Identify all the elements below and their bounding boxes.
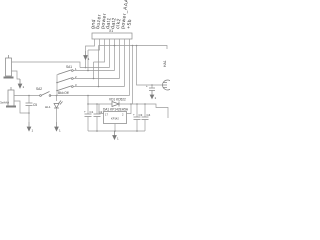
wire buzzer drop: [137, 46, 163, 86]
switch S1.3: [58, 86, 72, 91]
wire jack2 tip to bus: [14, 95, 40, 97]
node dot buzzer branch: [151, 84, 153, 86]
pin label +5v: [126, 19, 133, 30]
jack XS1: [4, 55, 14, 78]
svg-text:17: 17: [105, 113, 108, 117]
diode VD1: [112, 102, 119, 107]
svg-text:+: +: [84, 110, 86, 114]
wire jack1 tip to pin3: [12, 62, 81, 68]
bottom bus: [88, 130, 145, 132]
svg-text:SA1: SA1: [66, 65, 72, 69]
jack XS2: [6, 87, 16, 107]
pin 2 stub: [88, 39, 100, 50]
node dot C cap: [28, 95, 30, 97]
buzer line y45.5: [99, 46, 168, 50]
bus label: [58, 91, 69, 95]
pin 1 stub: [86, 39, 95, 51]
cap C4: [144, 104, 146, 117]
svg-text:1: 1: [155, 96, 157, 100]
ground arrow LED: [55, 122, 59, 131]
switch SA2 on bus: [50, 95, 57, 97]
svg-text:2: 2: [122, 113, 124, 117]
jack XS2 label: [0, 101, 9, 105]
ground arrow top (gnd pin): [84, 51, 88, 60]
connector X1 label: [109, 29, 113, 33]
wire y67.5 line: [80, 67, 110, 69]
ground arrow buzzer cap: [150, 91, 154, 99]
capacitor C6 column: [28, 96, 30, 104]
switch group label SA1: [66, 65, 72, 69]
ground arrow jack1: [18, 79, 22, 88]
node dot y67.5: [85, 67, 87, 69]
switch riser 2: [93, 62, 95, 79]
node dot on buzer line: [114, 45, 116, 47]
svg-text:HA1: HA1: [163, 60, 167, 67]
svg-text:1: 1: [23, 85, 25, 89]
cap C1: [87, 104, 89, 114]
svg-text:C1: C1: [90, 110, 94, 114]
svg-text:1: 1: [59, 129, 61, 133]
svg-text:1: 1: [117, 137, 119, 141]
svg-text:C3: C3: [139, 113, 143, 117]
svg-text:+5b: +5b: [126, 19, 133, 30]
cap C5 buzzer: [151, 85, 153, 88]
wire jack2 sleeve: [14, 101, 29, 113]
svg-text:+: +: [146, 84, 148, 88]
wire jack1 sleeve: [12, 71, 21, 79]
pin 6 stub: [119, 39, 121, 79]
ground arrow C6: [27, 122, 31, 131]
switch riser 3: [98, 46, 100, 87]
LED column: [56, 96, 58, 102]
switch group riser: [56, 75, 58, 96]
pin label clk: [115, 18, 122, 29]
connector X1 body: [92, 33, 132, 39]
pin 7 stub: [124, 39, 126, 87]
LED HL1: [54, 101, 63, 109]
rail after diode: [119, 104, 168, 118]
regulator out pin: [127, 104, 132, 114]
pin label dat1: [105, 17, 113, 29]
svg-text:DA1 KP142EH5A: DA1 KP142EH5A: [103, 108, 129, 112]
svg-text:1: 1: [32, 129, 34, 133]
svg-text:C4: C4: [147, 113, 151, 117]
switch riser 1: [87, 50, 89, 71]
svg-text:SA2: SA2: [36, 87, 42, 91]
svg-text:VD1 KD522: VD1 KD522: [109, 98, 126, 102]
cap C3: [136, 104, 138, 117]
pin 5 stub: [114, 39, 116, 71]
pin label power: [100, 13, 108, 30]
svg-text:KP142: KP142: [111, 117, 119, 121]
switch S1.1: [58, 70, 72, 75]
cap C2: [96, 104, 98, 114]
bus to rail drop: [87, 96, 89, 105]
regulator gnd pin: [114, 124, 116, 132]
pin label buzer: [95, 14, 103, 29]
svg-text:3xAAA: 3xAAA: [0, 101, 9, 105]
pin label dat2: [110, 17, 118, 29]
regulator DA1: [99, 104, 104, 114]
svg-text:C5: C5: [33, 103, 37, 107]
main bus y95.5: [57, 95, 130, 97]
svg-text:HL1: HL1: [45, 105, 51, 109]
pin 4 stub: [109, 39, 111, 68]
switch S1.2: [58, 78, 72, 83]
pin 8 stub: [129, 39, 131, 96]
pin 3 stub: [94, 39, 105, 62]
pin label power_AAA: [120, 0, 130, 29]
svg-text:+: +: [133, 113, 135, 117]
input rail y104: [88, 103, 112, 105]
wire +5 rail drop: [132, 46, 134, 105]
svg-text:Bkl=Off: Bkl=Off: [58, 91, 69, 95]
pin label gnd: [90, 19, 97, 29]
buzzer HA1: [163, 80, 173, 90]
buzzer label: [163, 60, 167, 67]
ground arrow regulator: [113, 131, 117, 139]
